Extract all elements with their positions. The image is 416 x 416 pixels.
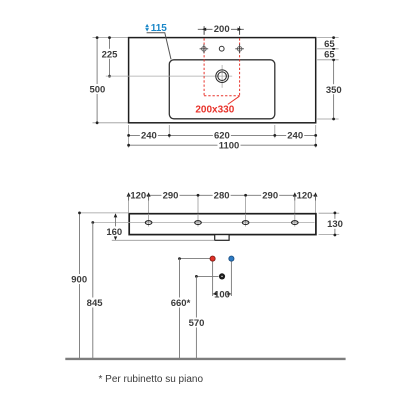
dim 160 arrow up: [114, 213, 118, 217]
red dot drop line: [212, 261, 214, 296]
dim 100 arrow left: [213, 292, 217, 295]
extension line bottom-left: [93, 122, 129, 124]
right extension line at basin bottom: [317, 118, 338, 120]
svg-text:200x330: 200x330: [195, 104, 234, 115]
blue dot drop line: [230, 261, 232, 296]
115 leader line: [147, 33, 171, 60]
dim 160 label: [105, 226, 123, 236]
svg-text:280: 280: [214, 191, 230, 202]
bottom extension line right edge: [315, 125, 317, 148]
dim 225 line: [109, 38, 111, 77]
drain centerline horizontal: [106, 75, 232, 77]
mounting hole 4: [292, 221, 299, 225]
dim 160 line: [115, 217, 117, 227]
dim 570 line: [195, 276, 197, 358]
svg-text:65: 65: [324, 39, 335, 50]
svg-text:240: 240: [141, 131, 157, 142]
drain stub tab: [215, 235, 229, 241]
drain inner circle: [218, 72, 227, 81]
label 350: [325, 84, 343, 94]
dim 570 label: [188, 318, 206, 328]
front dim up-arrow far left: [127, 192, 131, 196]
dim 160 arrow down: [114, 236, 118, 240]
svg-text:290: 290: [262, 191, 278, 202]
drain centerline vertical: [221, 65, 223, 88]
cold water blue dot: [229, 256, 234, 261]
115 double-arrow icon: [145, 24, 149, 32]
drain outer circle: [216, 70, 229, 83]
svg-text:900: 900: [71, 274, 87, 285]
bottom extension line basin left: [168, 125, 170, 138]
right extension line at faucet level: [317, 48, 338, 50]
dim line 1100: [129, 144, 316, 146]
front dim up-arrow far right: [314, 192, 318, 196]
waste outlet dot: [219, 273, 225, 279]
right dim line 65/65/350: [333, 38, 335, 119]
660 connector line: [180, 258, 211, 260]
label 620: [213, 130, 231, 140]
svg-text:100: 100: [214, 289, 230, 300]
900 extension line: [80, 212, 130, 214]
stub bottom extension line: [112, 239, 215, 241]
130 extension line top: [319, 212, 340, 214]
front dim up-arrow hole1: [147, 192, 151, 196]
dim 660 label: [170, 298, 192, 308]
svg-text:200: 200: [214, 24, 230, 35]
svg-text:65: 65: [324, 50, 335, 61]
extension drop to hole3: [245, 197, 247, 215]
mounting hole 1: [145, 221, 152, 225]
label 65 upper: [323, 39, 336, 48]
svg-text:225: 225: [102, 49, 119, 60]
svg-text:845: 845: [87, 298, 104, 309]
red dashed template 200x330 left line: [203, 38, 205, 96]
front dim dot hole2: [197, 194, 200, 197]
bottom extension line left edge: [128, 125, 130, 148]
hole drop line 2: [197, 214, 199, 227]
red dashed template bottom line: [204, 95, 240, 97]
dim 500 label: [89, 84, 107, 94]
extension drop to left corner: [128, 201, 130, 214]
extension drop to hole4: [294, 201, 296, 215]
svg-text:* Per rubinetto su piano: * Per rubinetto su piano: [99, 374, 204, 385]
dim 225 label: [101, 49, 119, 59]
svg-text:500: 500: [89, 85, 105, 96]
dim line 240/620/240: [129, 134, 316, 136]
label 240 right: [286, 130, 304, 140]
dim 130 label: [326, 219, 344, 229]
red leader line: [228, 96, 240, 104]
extension line top-left: [93, 37, 129, 39]
svg-text:120: 120: [297, 191, 313, 202]
svg-text:350: 350: [326, 85, 342, 96]
washbasin front rectangle: [129, 214, 316, 235]
front dim line 120/290/280/290/120: [129, 194, 316, 196]
red dashed template right line: [239, 38, 241, 96]
dim 845 line: [92, 223, 94, 359]
mounting hole 2: [195, 221, 202, 225]
130 extension line bottom: [319, 234, 340, 236]
dim 200 line (faucet spacing): [198, 28, 244, 30]
bottom extension line basin right: [274, 125, 276, 138]
dim 100 line: [213, 293, 232, 295]
svg-text:120: 120: [130, 191, 146, 202]
extension drop to hole2: [197, 197, 199, 215]
svg-text:130: 130: [327, 219, 343, 230]
dim 900 line: [79, 213, 81, 358]
dim 200 tick right: [239, 26, 241, 35]
label 120 left: [130, 190, 146, 200]
holes centerline with 845 tail: [93, 222, 315, 224]
extension drop to hole1: [148, 201, 150, 215]
label 290 right: [261, 190, 279, 200]
washbasin outer rectangle (top view): [129, 38, 316, 123]
dim 100 arrow right: [227, 292, 231, 295]
dim 200 tick left: [203, 26, 205, 35]
extension drop to right corner: [315, 201, 317, 214]
hot water red dot: [210, 256, 215, 261]
basin bowl rounded rectangle: [169, 60, 274, 119]
hole drop line 3: [245, 214, 247, 227]
svg-text:1100: 1100: [219, 141, 240, 152]
570 connector line: [196, 275, 218, 277]
right extension line at top edge: [317, 37, 338, 39]
dim 845 label: [86, 298, 104, 308]
right extension line at basin top: [317, 59, 338, 61]
svg-text:290: 290: [163, 191, 179, 202]
floor line: [65, 358, 345, 360]
dim 660 line: [179, 259, 181, 358]
overflow hole circle: [219, 46, 224, 51]
dim 200 arrow right: [238, 28, 242, 31]
front dim dot hole3: [244, 194, 247, 197]
mounting hole 3: [242, 221, 249, 225]
dim 900 label: [70, 274, 88, 284]
faucet hole cross left: [200, 44, 209, 53]
label 240 left: [140, 130, 158, 140]
hole drop line 4: [294, 214, 296, 227]
dim 100 label: [214, 289, 230, 299]
dim 200 arrow left: [202, 28, 206, 31]
svg-text:570: 570: [189, 318, 205, 329]
label 280: [213, 190, 231, 200]
dim 500 line: [96, 38, 98, 123]
label 120 right: [297, 190, 313, 200]
dim 200 label: [213, 24, 232, 34]
svg-text:240: 240: [287, 131, 303, 142]
svg-text:660*: 660*: [171, 298, 191, 309]
faucet hole cross right: [235, 44, 244, 53]
hole drop line 1: [148, 214, 150, 227]
dim 130 line: [334, 213, 336, 235]
label 1100: [218, 140, 241, 150]
label 290 left: [162, 190, 180, 200]
front dim up-arrow hole4: [293, 192, 297, 196]
svg-text:160: 160: [106, 227, 122, 238]
label 65 lower: [323, 50, 336, 59]
